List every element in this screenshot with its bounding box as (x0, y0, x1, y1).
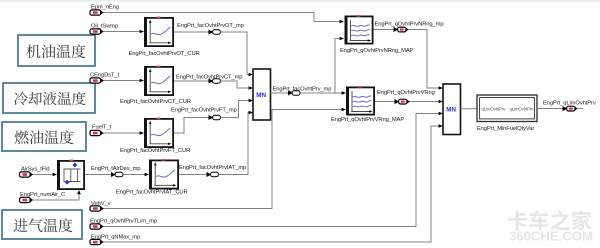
faint top edge band (0, 0, 600, 2)
svg-text:EngPrt_facOvhtPrvIAT_CUR: EngPrt_facOvhtPrvIAT_CUR (116, 189, 188, 195)
port EngPrt_facOvhtPrvCT_mp (209, 79, 222, 84)
port EngPrt_tAirDes_mp (111, 172, 124, 177)
svg-text:qLimOvhtPrv: qLimOvhtPrv (510, 107, 535, 112)
svg-text:Epm_nEng: Epm_nEng (91, 4, 119, 10)
svg-text:MN: MN (446, 106, 456, 113)
label box 进气温度 (2, 210, 82, 239)
svg-text:EngPrt_qOvhtPrvVRng: EngPrt_qOvhtPrvVRng (377, 90, 435, 96)
averaging block for intake air temp (57, 160, 84, 190)
input port Epm_nEng (90, 10, 104, 15)
port EngPrt_facOvhtPrvFT_mp (209, 115, 222, 120)
svg-text:EngPrt_facOvhtPrvIAT_mp: EngPrt_facOvhtPrvIAT_mp (179, 165, 246, 171)
wire Oil_tSwmp to OT curve (103, 30, 144, 34)
label box 冷却液温度 (3, 83, 95, 113)
input port FuelT_t (90, 130, 104, 135)
input port EngPrt_qOvhtPrvTLim_mp (90, 224, 104, 229)
svg-text:EngPrt_facOvhtPrvOT_mp: EngPrt_facOvhtPrvOT_mp (177, 23, 244, 29)
svg-text:AirSys_tFld: AirSys_tFld (21, 166, 50, 172)
input port CEngDsT_t (90, 78, 104, 83)
svg-text:VehV_v: VehV_v (91, 201, 111, 207)
wire EngPrt_qNMax_mp to MN2 input 4 (103, 124, 443, 242)
wire EngPrt_numAir_C into averaging block bottom (33, 190, 81, 200)
svg-text:FuelT_t: FuelT_t (92, 124, 111, 130)
svg-text:EngPrt_tAirDes_mp: EngPrt_tAirDes_mp (91, 166, 141, 172)
variable block EngPrt_MinFuelQtyVar (477, 95, 537, 122)
curve block EngPrt_facOvhtPrvCT_CUR (144, 66, 173, 96)
svg-text:qLimOvhtPrv: qLimOvhtPrv (482, 107, 507, 112)
wire qOvhtPrvVRng to MN2 input 2 (375, 100, 443, 104)
svg-text:EngPrt_facOvhtPrvFT_mp: EngPrt_facOvhtPrvFT_mp (171, 108, 237, 114)
input port EngPrt_qNMax_mp (90, 239, 104, 244)
wire branch facOvhtPrv up to NRng MAP input 2 (335, 37, 344, 93)
wire output qLimOvhtPrv (537, 108, 583, 110)
wire MN2 to MinFuelQtyVar (461, 108, 478, 110)
wire EngPrt_qOvhtPrvTLim_mp to MN2 input 3 (103, 112, 443, 227)
curve block EngPrt_facOvhtPrvIAT_CUR (149, 159, 178, 189)
svg-text:EngPrt_qOvhtPrvTLim_mp: EngPrt_qOvhtPrvTLim_mp (90, 219, 157, 225)
port EngPrt_facOvhtPrvOT_mp (209, 30, 222, 35)
wire CEngDsT_t to CT curve (103, 79, 144, 83)
wire IAT factor to MN1 input 4 (179, 111, 253, 175)
wire CT factor to MN1 input 2 (174, 81, 253, 90)
wire FT factor to MN1 input 3 (174, 99, 253, 133)
label box 机油温度 (18, 35, 95, 66)
svg-text:EngPrt_numAir_C: EngPrt_numAir_C (20, 192, 65, 198)
wire Epm_nEng to NRng MAP input 1 (103, 13, 344, 24)
port EngPrt_qOvhtPrvVRng_mp (395, 99, 410, 104)
svg-text:EngPrt_MinFuelQtyVar: EngPrt_MinFuelQtyVar (477, 126, 534, 132)
input port EngPrt_numAir_C (20, 197, 34, 202)
port EngPrt_qOvhtPrvNRng_mp (394, 27, 409, 32)
svg-text:Oil_tSwmp: Oil_tSwmp (91, 23, 118, 29)
svg-text:EngPrt_qNMax_mp: EngPrt_qNMax_mp (91, 235, 140, 241)
input port AirSys_tFld (20, 172, 34, 177)
svg-text:EngPrt_facOvhtPrvOT_CUR: EngPrt_facOvhtPrvOT_CUR (129, 51, 200, 57)
input port VehV_v (90, 206, 104, 211)
wire VehV_v to VRng MAP input 2 (103, 108, 346, 209)
wire tAirDes to IAT curve (85, 173, 149, 177)
svg-text:EngPrt_facOvhtPrvCT_mp: EngPrt_facOvhtPrvCT_mp (176, 75, 242, 81)
svg-text:CEngDsT_t: CEngDsT_t (90, 72, 120, 78)
map block EngPrt_qOvhtPrvVRng_MAP (346, 86, 374, 115)
svg-text:EngPrt_facOvhtPrvCT_CUR: EngPrt_facOvhtPrvCT_CUR (120, 99, 191, 105)
port EngPrt_facOvhtPrvIAT_mp (207, 172, 220, 177)
wire qOvhtPrvNRng to MN2 input 1 (374, 30, 444, 90)
minimum block MN1 (253, 69, 271, 120)
input port Oil_tSwmp (90, 29, 104, 34)
port EngPrt_facOvhtPrv_mp (288, 91, 301, 96)
svg-text:EngPrt_qOvhtPrvNRng_mp: EngPrt_qOvhtPrvNRng_mp (375, 22, 444, 28)
output port EngPrt_qLimOvhtPrv (563, 106, 578, 111)
label box 燃油温度 (2, 122, 86, 151)
svg-text:EngPrt_qLimOvhtPrv: EngPrt_qLimOvhtPrv (543, 100, 596, 106)
minimum block MN2 (443, 84, 461, 135)
svg-text:MN: MN (256, 92, 266, 99)
wire facOvhtPrv from MN1 to VRng MAP input 1 (271, 91, 347, 95)
svg-text:EngPrt_facOvhtPrv_mp: EngPrt_facOvhtPrv_mp (273, 87, 332, 93)
wire FuelT_t to FT curve (103, 131, 144, 135)
curve block EngPrt_facOvhtPrvFT_CUR (144, 118, 173, 148)
wire AirSys_tFld to averaging block (33, 173, 57, 177)
wire OT factor to MN1 input 1 (174, 32, 253, 76)
svg-text:EngPrt_facOvhtPrvFT_CUR: EngPrt_facOvhtPrvFT_CUR (120, 148, 190, 154)
svg-text:EngPrt_qOvhtPrvVRng_MAP: EngPrt_qOvhtPrvVRng_MAP (331, 117, 404, 123)
curve block EngPrt_facOvhtPrvOT_CUR (144, 17, 173, 47)
map block EngPrt_qOvhtPrvNRng_MAP (345, 15, 373, 44)
svg-text:EngPrt_qOvhtPrvNRng_MAP: EngPrt_qOvhtPrvNRng_MAP (340, 48, 414, 54)
watermark 卡车之家 360CHE.COM (508, 210, 593, 243)
svg-text:360CHE.COM: 360CHE.COM (509, 230, 593, 244)
